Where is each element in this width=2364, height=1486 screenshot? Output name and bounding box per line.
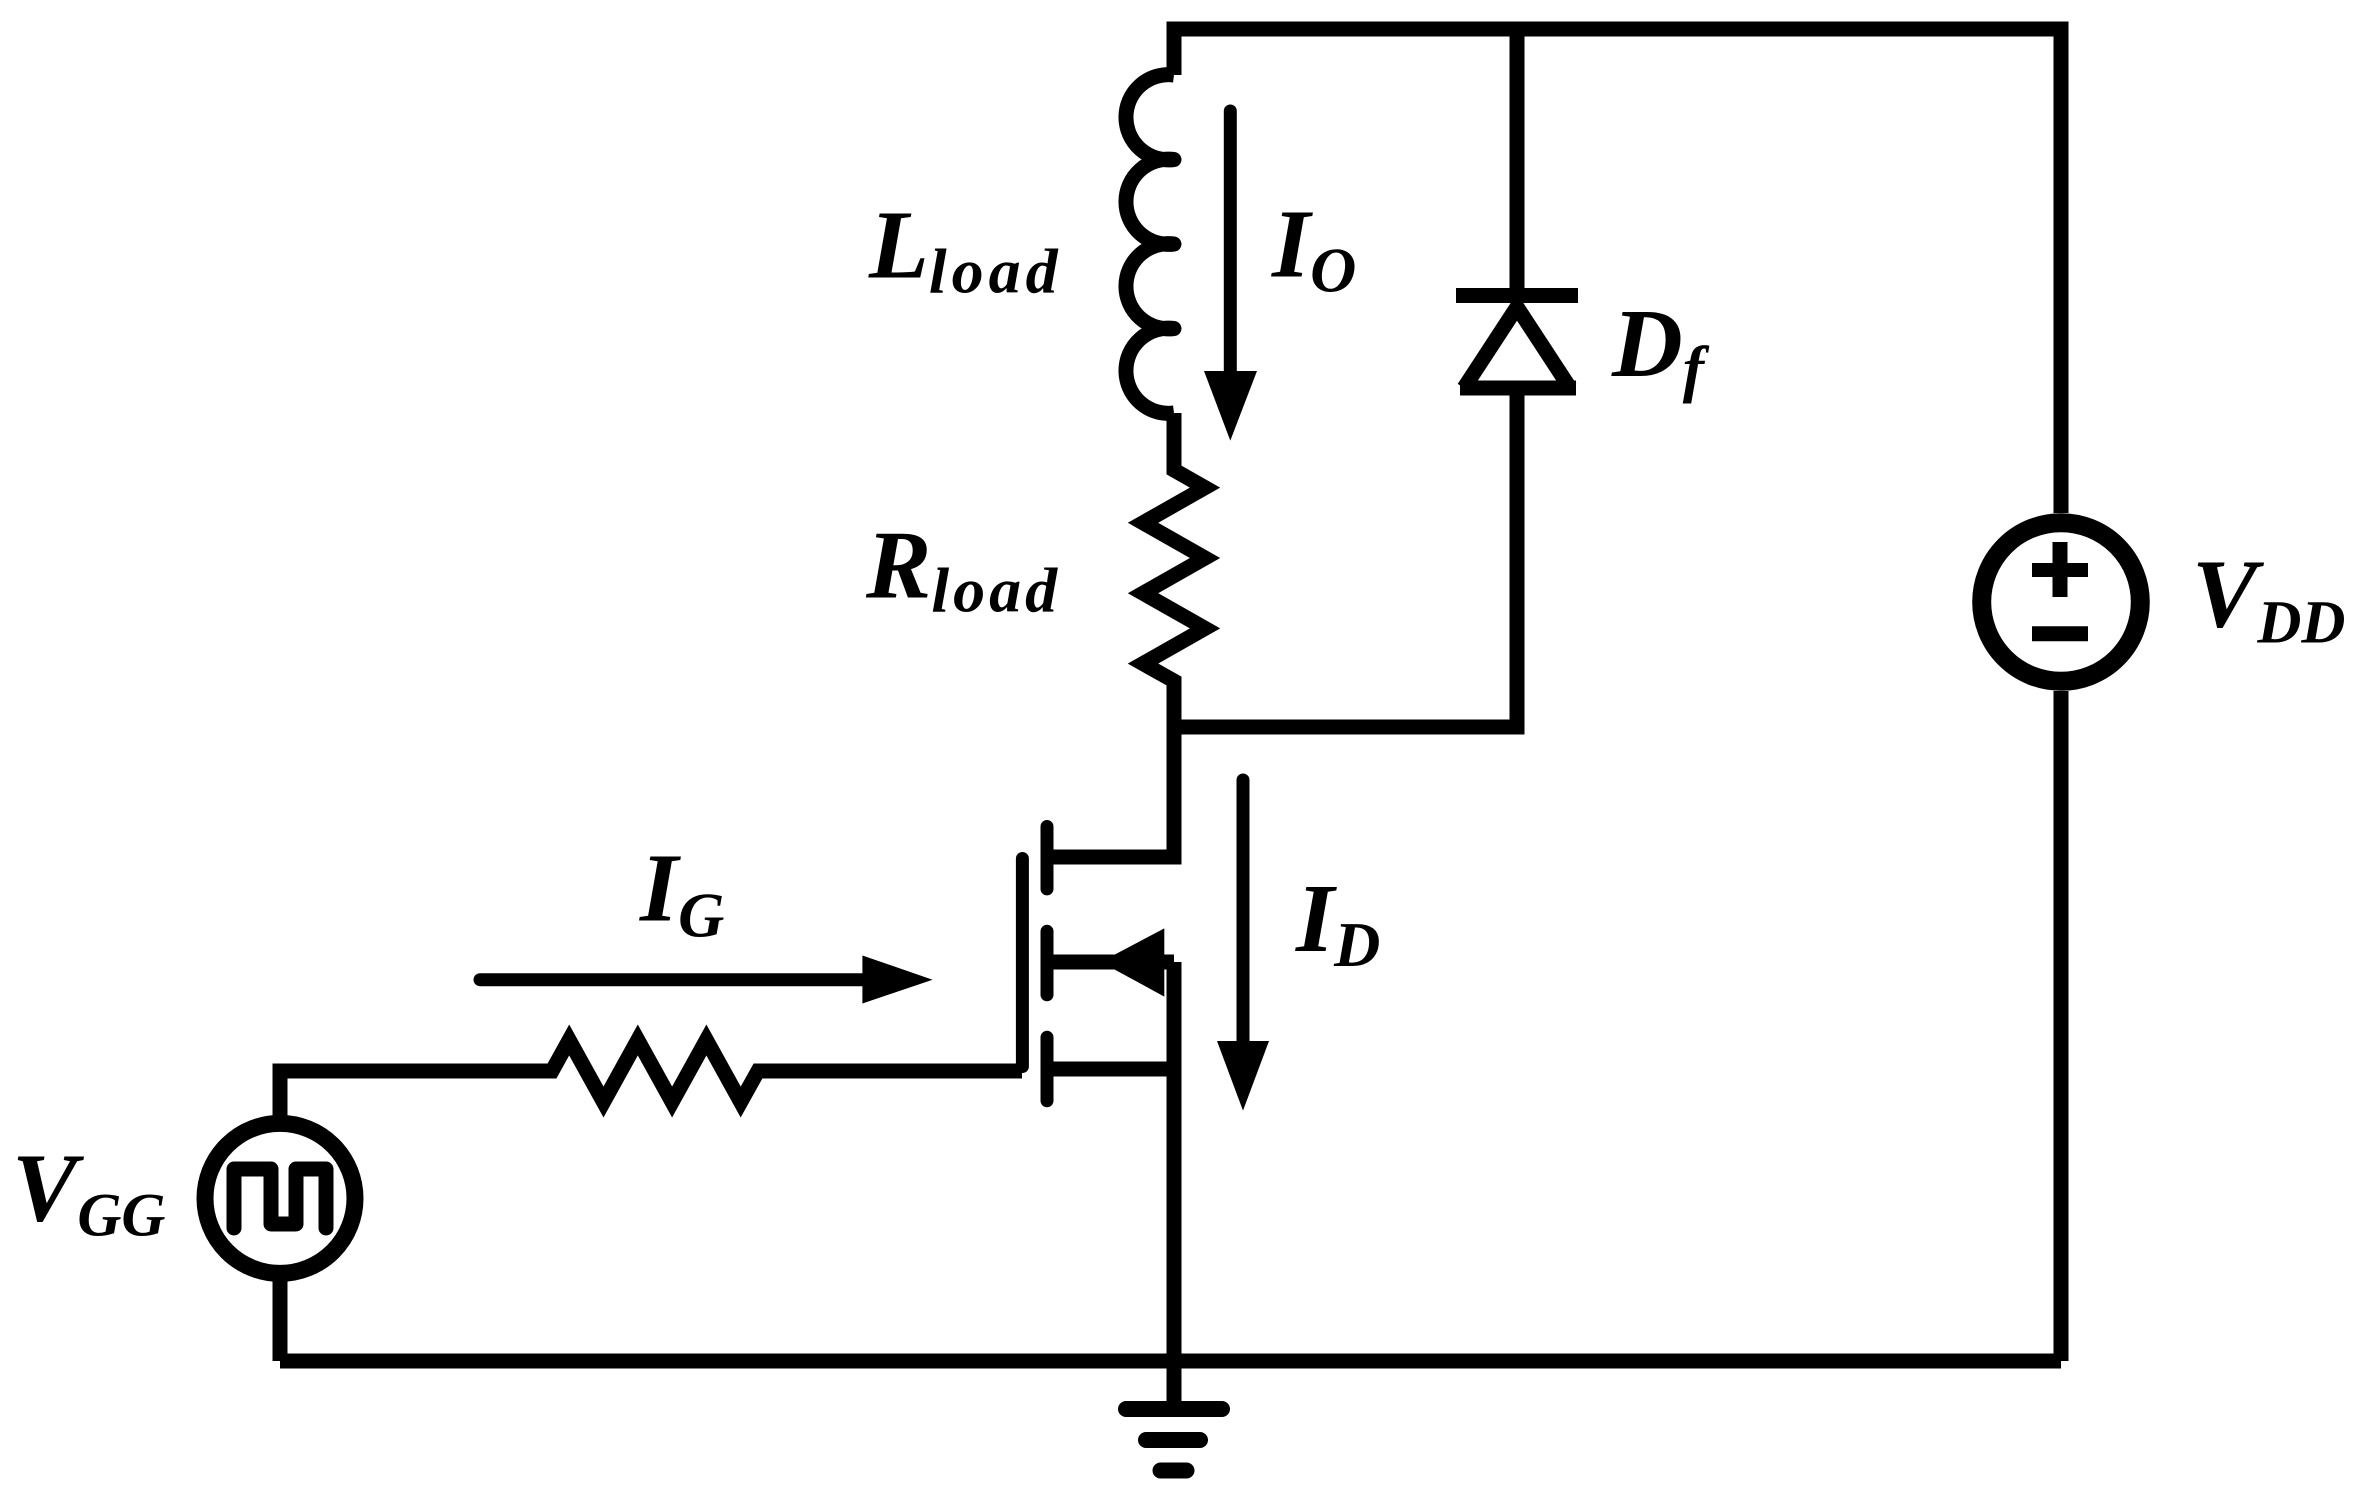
wire source to bottom rail — [1167, 962, 1182, 1361]
diode Df triangle — [1464, 307, 1570, 388]
wire node to diode anode — [1167, 388, 1518, 727]
VGG square-wave icon — [234, 1169, 326, 1228]
transistor M1 channel segment bottom — [1041, 1037, 1054, 1101]
current arrow IO line — [1224, 111, 1237, 375]
ground bar 2 — [1146, 1432, 1200, 1448]
transistor M1 gate bar — [1016, 859, 1029, 1067]
wire bottom rail — [280, 1354, 2061, 1369]
resistor Rload — [1143, 455, 1205, 695]
resistor RG — [538, 1040, 772, 1102]
current arrow IO head — [1204, 371, 1257, 441]
current arrow IG head — [862, 956, 932, 1004]
voltage source VDD circle — [1982, 523, 2141, 682]
VDD plus sign — [2032, 563, 2088, 577]
transistor M1 body-diode arrowhead — [1101, 928, 1165, 996]
transistor M1 source lead — [1047, 1062, 1174, 1077]
VDD minus sign — [2032, 626, 2088, 641]
wire VGG bottom lead — [273, 1274, 288, 1361]
wire VGG top lead — [280, 1071, 552, 1123]
diode Df base bar — [1460, 381, 1576, 396]
wire diode cathode to top rail — [1510, 29, 1525, 296]
wire inductor to Rload — [1167, 413, 1182, 470]
current arrow IG line — [480, 973, 868, 986]
transistor M1 drain lead — [1047, 727, 1174, 857]
diode Df cathode bar — [1456, 288, 1578, 303]
wire top rail — [1174, 29, 2061, 513]
transistor M1 channel segment middle — [1041, 931, 1054, 995]
ground bar 1 — [1126, 1401, 1222, 1417]
wire RG to gate — [758, 1064, 1022, 1079]
wire VDD to bottom rail — [2054, 691, 2069, 1361]
transistor M1 body lead — [1047, 955, 1174, 970]
current arrow ID line — [1237, 780, 1250, 1045]
ground bar 3 — [1161, 1463, 1187, 1479]
transistor M1 channel segment top — [1041, 827, 1054, 889]
wire Rload to drain node — [1167, 681, 1182, 857]
inductor Lload — [1126, 75, 1174, 414]
pulse source VGG circle — [205, 1123, 355, 1273]
wire ground stub — [1167, 1361, 1182, 1409]
current arrow ID head — [1217, 1041, 1269, 1111]
